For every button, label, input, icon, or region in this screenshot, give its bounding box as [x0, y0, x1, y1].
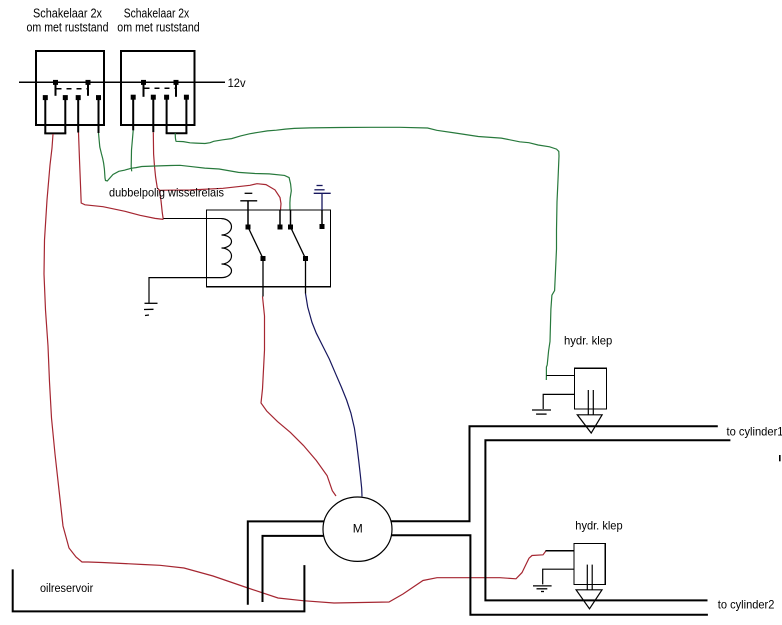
switch S1 terminal dots [43, 95, 48, 100]
relay switch arm B [291, 227, 306, 259]
wire: valve V1 coil terminal (from green) [547, 375, 575, 377]
pipe: cylinder1 return line down to cylinder2 feed [485, 440, 730, 600]
ground G4 (valve V1) [532, 410, 551, 414]
relay K1 box [207, 210, 331, 287]
ground G5 (valve V2) [533, 586, 552, 592]
switch S1 box [36, 51, 104, 125]
relay switch arm A [248, 227, 263, 259]
pipe: motor suction left B into reservoir [263, 536, 324, 602]
wire: valve V1 coil terminal to ground [543, 394, 574, 409]
svg-text:Schakelaar 2x: Schakelaar 2x [33, 7, 103, 21]
label: clipped letter at right edge [779, 455, 781, 461]
wire: red from S1 U-link down left side to bottom, across to valve V2 coil [44, 134, 546, 603]
valve V2 solenoid box [574, 543, 605, 584]
switch S2 terminal dots [131, 95, 136, 100]
wire: U link joining S2 terminals 3-4 [166, 132, 188, 134]
relay contact dots [246, 225, 251, 230]
svg-text:12v: 12v [228, 76, 246, 90]
ground G3 (navy, relay contact D) [314, 186, 331, 194]
wire: red from S1 terminal 3 to relay coil junction [79, 133, 164, 220]
switch S2 pole contact dots on 12v line [141, 80, 146, 85]
svg-text:Schakelaar 2x: Schakelaar 2x [124, 7, 190, 21]
valve V2 nozzle triangle [576, 590, 602, 609]
wire: relay arm B down (black stub) [305, 259, 307, 294]
pipe: motor to valve V1 / cylinder1 line [391, 426, 718, 521]
ground G2 (relay pole A, above relay) [240, 193, 257, 201]
wire: red from relay arm A down to motor [261, 297, 336, 497]
wire: relay arm A down (black stub) [262, 259, 264, 297]
wire: navy from relay arm B down to motor [306, 294, 363, 497]
wire: stub green contact C [290, 210, 292, 227]
switch S1 pole levers [55, 82, 57, 95]
wire: green stub from S2 terminal 1 joining green run [131, 130, 133, 171]
wire: relay coil return to ground [149, 278, 222, 303]
switch S2 terminal posts [132, 97, 134, 130]
svg-text:dubbelpolig wisselrelais: dubbelpolig wisselrelais [109, 186, 224, 200]
valve V2 stem lines [586, 565, 588, 590]
svg-text:to cylinder2: to cylinder2 [718, 598, 775, 612]
svg-text:M: M [353, 522, 363, 536]
wire: U link joining S1 terminals 1-2 [44, 132, 66, 134]
pipe: motor to bottom line to cylinder2 [392, 535, 708, 615]
relay coil [222, 219, 232, 278]
wire: valve V2 coil terminal to ground [543, 569, 574, 584]
svg-text:om met ruststand: om met ruststand [27, 20, 109, 34]
switch S1 terminal posts [44, 98, 46, 134]
switch S2 box [121, 51, 194, 125]
valve V1 nozzle triangle [577, 415, 602, 433]
switch S2 dashed mechanical link [145, 87, 177, 89]
valve V1 stem lines [587, 390, 589, 415]
ground G1 (relay coil) [144, 303, 158, 315]
oil reservoir tank [13, 565, 305, 611]
wire: stub red contact B [279, 210, 281, 227]
pipe: motor suction left A into reservoir [248, 521, 325, 604]
wire: relay coil feed from junction [163, 218, 221, 220]
wire: red from S2 terminal 2 down to junction and relay contact [153, 132, 163, 219]
valve V1 solenoid box [575, 368, 607, 409]
svg-text:oilreservoir: oilreservoir [40, 583, 93, 595]
svg-text:hydr. klep: hydr. klep [564, 334, 613, 348]
wire: 12v supply line [19, 81, 225, 83]
switch S2 pole levers [143, 82, 145, 96]
svg-text:to cylinder1: to cylinder1 [727, 425, 782, 439]
svg-text:om met ruststand: om met ruststand [117, 20, 199, 34]
wire: valve V2 coil terminal (from red) [546, 550, 574, 552]
wire: relay pole A up to ground G2 [247, 201, 249, 227]
svg-text:hydr. klep: hydr. klep [575, 519, 623, 533]
wire: green from S2 U-link across top to valve V1 [175, 127, 559, 380]
wire: green from S1 terminal 4 across to relay contact [99, 133, 292, 210]
motor M circle [323, 497, 392, 561]
wire: navy stub from ground G3 to relay contact D [321, 193, 323, 210]
switch S1 pole contact dots on 12v line [53, 80, 58, 85]
switch S1 dashed mechanical link [57, 88, 89, 90]
